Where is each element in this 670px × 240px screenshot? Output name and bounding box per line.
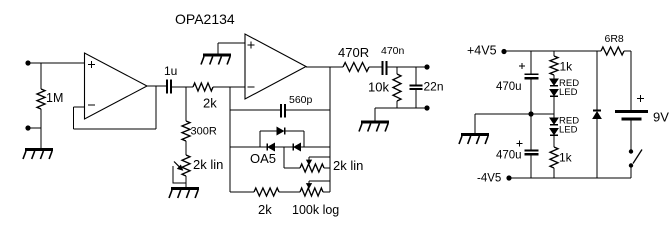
wiper of feedback pot	[307, 157, 312, 164]
output terminal bottom	[424, 105, 429, 110]
wire	[396, 67, 398, 74]
svg-text:22n: 22n	[424, 80, 444, 94]
wire	[553, 136, 555, 148]
LED4 red	[550, 129, 558, 136]
wire	[388, 66, 428, 68]
LED2 red	[550, 90, 558, 97]
resistor 10k	[393, 74, 401, 101]
terminal -4V5	[506, 175, 511, 180]
wire	[301, 146, 331, 148]
wire	[553, 168, 555, 178]
wire	[74, 106, 85, 108]
wire	[474, 114, 476, 134]
wire	[630, 168, 632, 178]
wire	[596, 119, 598, 179]
wire	[285, 130, 305, 132]
wire feedback right rail	[329, 67, 331, 192]
svg-text:1M: 1M	[46, 91, 63, 105]
wire	[259, 131, 261, 147]
svg-text:2k: 2k	[203, 96, 217, 111]
switch SW1 power	[629, 149, 642, 167]
wire bottom rail	[509, 177, 631, 179]
svg-text:-4V5: -4V5	[477, 173, 501, 185]
capacitor 470u upper	[525, 74, 539, 78]
diode D1 OA5	[277, 127, 285, 134]
wire	[375, 107, 427, 109]
wire	[185, 176, 187, 189]
capacitor 470n	[383, 61, 387, 75]
ground	[169, 189, 199, 199]
potentiometer 2k lin volume	[182, 155, 190, 176]
wire	[284, 167, 300, 169]
ground	[201, 55, 231, 65]
polarity + of upper 470u	[519, 63, 525, 69]
wire	[415, 67, 417, 85]
wire	[74, 128, 157, 130]
input terminal J1 ground	[25, 125, 30, 130]
diode D3 OA5	[293, 143, 301, 150]
wire	[28, 127, 41, 129]
wire	[396, 101, 398, 108]
junction	[528, 111, 533, 116]
svg-text:OPA2134: OPA2134	[175, 11, 235, 27]
svg-text:LED: LED	[559, 87, 578, 98]
ground	[459, 135, 489, 145]
wire	[213, 86, 245, 88]
wire	[230, 191, 254, 193]
wire	[309, 156, 330, 158]
capacitor 470u lower	[525, 151, 539, 155]
wire	[624, 50, 631, 52]
svg-text:470n: 470n	[381, 45, 405, 57]
wire	[553, 75, 555, 79]
U1B + input marker	[248, 42, 255, 49]
svg-text:+4V5: +4V5	[467, 44, 497, 58]
svg-text:300R: 300R	[191, 126, 217, 138]
diode D2 OA5	[267, 143, 275, 150]
wire	[630, 51, 632, 110]
svg-text:6R8: 6R8	[605, 33, 624, 45]
svg-text:10k: 10k	[368, 80, 389, 95]
U1A + input marker	[88, 61, 95, 68]
wire	[530, 51, 532, 74]
wire	[323, 191, 330, 193]
potentiometer 100k log	[300, 188, 323, 196]
resistor 470R	[343, 63, 369, 72]
svg-text:470R: 470R	[338, 45, 369, 60]
resistor 1k upper	[550, 56, 558, 75]
svg-text:2k lin: 2k lin	[193, 157, 223, 172]
potentiometer 2k lin feedback	[300, 164, 324, 172]
svg-text:560p: 560p	[289, 94, 313, 106]
svg-text:1k: 1k	[560, 60, 574, 74]
wire	[275, 146, 294, 148]
svg-text:470u: 470u	[496, 150, 522, 162]
wire	[260, 130, 278, 132]
wire	[230, 146, 267, 148]
wire	[630, 121, 632, 150]
wiper of volume pot	[173, 162, 186, 184]
op-amp U1A OPA2134	[85, 53, 148, 119]
resistor 1M	[37, 89, 45, 109]
wire	[530, 155, 532, 178]
LED3 red	[550, 118, 558, 125]
wire	[553, 97, 555, 119]
wire	[596, 51, 598, 111]
svg-text:OA5: OA5	[250, 151, 276, 166]
capacitor 1u	[167, 80, 171, 94]
svg-text:1u: 1u	[164, 64, 177, 78]
polarity + of lower 470u	[517, 141, 523, 147]
wire top rail	[504, 50, 601, 52]
wire	[73, 107, 75, 129]
wire	[147, 85, 166, 87]
diode D4 protection	[593, 111, 601, 119]
resistor 300R	[182, 121, 190, 141]
wire	[286, 109, 330, 111]
wire	[553, 51, 555, 56]
wire	[415, 90, 417, 108]
wire	[303, 131, 305, 147]
wire	[324, 167, 330, 169]
wire feedback left rail	[229, 87, 231, 192]
wire	[230, 109, 280, 111]
svg-text:1k: 1k	[559, 151, 573, 165]
wire middle rail 0V	[475, 113, 554, 115]
svg-text:9V: 9V	[653, 110, 669, 125]
LED1 red	[550, 79, 558, 86]
wire	[155, 86, 157, 129]
wire	[283, 147, 285, 168]
wire	[369, 66, 382, 68]
svg-text:100k log: 100k log	[292, 203, 339, 217]
U1B - input marker	[248, 86, 255, 88]
capacitor 560p	[281, 104, 285, 118]
output terminal top	[424, 64, 429, 69]
wire	[185, 141, 187, 155]
wire	[374, 108, 376, 122]
wire	[217, 43, 219, 55]
wire	[279, 191, 300, 193]
wiper of gain pot	[307, 181, 312, 188]
ground	[359, 122, 389, 132]
wire	[28, 62, 85, 64]
battery BT1 9V	[615, 112, 648, 120]
wire	[172, 86, 193, 88]
wire	[309, 180, 330, 182]
wire	[530, 79, 532, 114]
wire	[40, 109, 42, 150]
wire	[185, 87, 187, 121]
input terminal J1 signal	[25, 60, 30, 65]
svg-text:2k: 2k	[258, 202, 272, 217]
wire	[40, 63, 42, 89]
U1A - input marker	[88, 104, 95, 106]
resistor 1k lower	[550, 147, 558, 168]
wire output	[306, 66, 343, 68]
svg-text:LED: LED	[559, 125, 578, 136]
battery polarity +	[637, 95, 644, 102]
svg-text:470u: 470u	[496, 81, 522, 93]
op-amp U1B OPA2134	[245, 34, 306, 99]
wire	[218, 42, 245, 44]
capacitor 22n	[410, 85, 423, 89]
terminal +4V5	[501, 49, 506, 54]
wire	[530, 114, 532, 150]
ground	[23, 150, 53, 160]
resistor 2k series	[193, 83, 213, 91]
svg-text:2k lin: 2k lin	[333, 158, 363, 173]
resistor 6R8	[601, 47, 624, 55]
resistor 2k feedback	[254, 188, 279, 196]
